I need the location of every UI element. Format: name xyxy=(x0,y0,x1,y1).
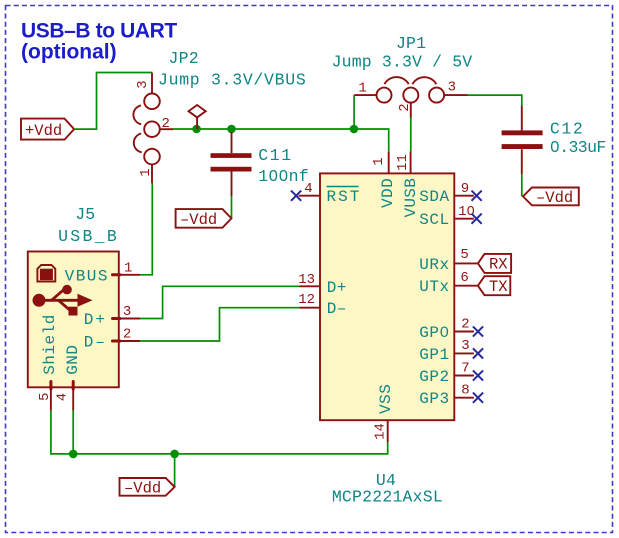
svg-text:J5: J5 xyxy=(75,205,95,224)
wire JP2 pin1 to VBUS xyxy=(140,183,152,274)
svg-text:SCL: SCL xyxy=(419,211,449,229)
svg-text:MCP2221AxSL: MCP2221AxSL xyxy=(332,488,443,507)
power flag +Vdd xyxy=(21,119,74,140)
svg-text:8: 8 xyxy=(461,383,469,399)
svg-text:GND: GND xyxy=(64,344,82,374)
connector J5 USB_B xyxy=(28,252,119,388)
pin UTx (U4.6) xyxy=(454,285,478,287)
svg-text:14: 14 xyxy=(373,423,389,440)
global label RX xyxy=(478,254,511,274)
pin SDA (U4.9) xyxy=(454,195,474,197)
svg-text:VUSB: VUSB xyxy=(402,178,420,218)
svg-text:GP2: GP2 xyxy=(419,368,449,386)
svg-text:2: 2 xyxy=(397,103,413,111)
wire C12 to -Vdd xyxy=(521,174,523,196)
svg-text:–Vdd: –Vdd xyxy=(180,211,217,229)
svg-text:2: 2 xyxy=(461,316,469,332)
wire C11 to -Vdd xyxy=(231,196,233,218)
no-connect X (GP1) xyxy=(473,348,483,358)
svg-text:VSS: VSS xyxy=(377,384,395,414)
power label -Vdd (under C11) xyxy=(176,209,232,229)
svg-text:11: 11 xyxy=(395,154,411,171)
wire JP1 pin2 to VUSB xyxy=(410,118,412,152)
capacitor C11 xyxy=(211,132,252,196)
svg-text:C11: C11 xyxy=(258,146,293,165)
svg-text:10: 10 xyxy=(458,204,475,220)
svg-text:GP3: GP3 xyxy=(419,390,449,408)
svg-text:0.33uF: 0.33uF xyxy=(550,138,606,157)
svg-text:TX: TX xyxy=(489,278,508,296)
pin Shield (J5.5) xyxy=(50,387,52,410)
wire JP1 pin1 down to vdd net xyxy=(353,95,355,129)
wire Shield to gnd net xyxy=(51,411,73,454)
svg-text:4: 4 xyxy=(55,393,71,401)
pin GP3 (U4.8) xyxy=(454,397,474,399)
capacitor C12 xyxy=(502,105,543,174)
no-connect X (RST) xyxy=(291,191,301,201)
global label TX xyxy=(478,276,510,296)
connector JP1 xyxy=(354,77,467,117)
svg-text:13: 13 xyxy=(298,272,315,288)
pin GP2 (U4.7) xyxy=(454,375,474,377)
no-connect X (GP3) xyxy=(473,393,483,403)
pin VBUS (J5.1) xyxy=(119,274,140,276)
svg-text:D+: D+ xyxy=(84,311,107,329)
svg-text:USB–B to UART: USB–B to UART xyxy=(21,20,177,43)
svg-text:3: 3 xyxy=(135,80,151,88)
pin D- (U4.12) xyxy=(300,307,321,309)
svg-text:3: 3 xyxy=(448,80,456,96)
power label -Vdd (under C12) xyxy=(523,188,579,207)
svg-text:–Vdd: –Vdd xyxy=(124,479,161,497)
svg-text:Shield: Shield xyxy=(41,314,59,375)
pin URx (U4.5) xyxy=(454,262,478,264)
svg-text:Jump 3.3V/VBUS: Jump 3.3V/VBUS xyxy=(158,70,306,89)
pin GP0 (U4.2) xyxy=(454,331,474,333)
pin D- (J5.2) xyxy=(119,340,140,342)
svg-text:–Vdd: –Vdd xyxy=(536,189,573,207)
svg-text:GP1: GP1 xyxy=(419,346,449,364)
usb trident icon xyxy=(33,294,46,307)
svg-text:3: 3 xyxy=(123,304,131,320)
pin GP1 (U4.3) xyxy=(454,352,474,354)
pin VUSB (U4.11) xyxy=(410,151,412,173)
svg-text:1: 1 xyxy=(358,81,366,97)
pin RST (U4.4) xyxy=(299,195,320,197)
svg-text:URx: URx xyxy=(419,256,449,274)
svg-text:C12: C12 xyxy=(550,120,585,139)
junction xyxy=(170,450,179,459)
junction xyxy=(69,450,78,459)
svg-text:D+: D+ xyxy=(327,279,347,297)
no-connect X (SDA) xyxy=(472,191,482,201)
wire junction to -Vdd label xyxy=(174,454,176,487)
svg-text:6: 6 xyxy=(460,270,468,286)
pin D+ (U4.13) xyxy=(300,285,321,287)
svg-text:+Vdd: +Vdd xyxy=(25,122,62,140)
svg-text:D–: D– xyxy=(84,334,107,352)
svg-text:VDD: VDD xyxy=(379,178,397,208)
svg-text:UTx: UTx xyxy=(419,278,449,296)
junction xyxy=(192,125,201,134)
IC U4 MCP2221AxSL xyxy=(320,173,454,420)
wire +Vdd to JP2 pin3 xyxy=(74,73,152,130)
wire JP2 pin2 to VDD pin xyxy=(173,129,389,151)
svg-text:3: 3 xyxy=(461,338,469,354)
pin D+ (J5.3) xyxy=(119,318,140,320)
svg-text:4: 4 xyxy=(304,181,312,197)
pin VDD (U4.1) xyxy=(388,151,390,173)
usb-b plug icon xyxy=(37,265,55,282)
junction xyxy=(227,125,236,134)
wire gnd bus to VSS xyxy=(73,442,388,454)
power flag PWR_FLAG xyxy=(189,105,206,129)
svg-text:Jump 3.3V / 5V: Jump 3.3V / 5V xyxy=(332,53,473,72)
no-connect X (GP0) xyxy=(473,326,483,336)
svg-text:RST: RST xyxy=(327,188,362,206)
pin GND (J5.4) xyxy=(72,387,74,410)
svg-text:5: 5 xyxy=(460,247,468,263)
svg-text:7: 7 xyxy=(461,360,469,376)
wire GND pin down xyxy=(72,411,74,454)
svg-text:1: 1 xyxy=(138,168,154,176)
wire JP1 pin3 to C12 xyxy=(468,95,522,105)
connector JP2 xyxy=(133,73,173,184)
svg-text:1: 1 xyxy=(124,261,132,277)
junction xyxy=(350,125,359,134)
svg-text:(optional): (optional) xyxy=(21,41,117,64)
svg-text:JP1: JP1 xyxy=(396,34,426,53)
svg-text:D–: D– xyxy=(327,300,347,318)
wire J5 D- to U4 pin12 xyxy=(140,308,300,341)
no-connect X (GP2) xyxy=(473,370,483,380)
title text xyxy=(21,20,177,64)
pin SCL (U4.10) xyxy=(454,218,474,220)
svg-text:JP2: JP2 xyxy=(169,49,199,68)
wire J5 D+ to U4 pin13 xyxy=(140,286,300,318)
svg-text:VBUS: VBUS xyxy=(65,267,109,285)
no-connect X (SCL) xyxy=(472,214,482,224)
svg-text:RX: RX xyxy=(489,256,508,274)
svg-text:2: 2 xyxy=(161,116,169,132)
svg-text:9: 9 xyxy=(461,181,469,197)
svg-text:SDA: SDA xyxy=(419,188,449,206)
svg-text:5: 5 xyxy=(37,392,53,400)
svg-text:2: 2 xyxy=(123,326,131,342)
svg-text:1: 1 xyxy=(371,157,387,165)
svg-text:12: 12 xyxy=(298,292,315,308)
pin VSS (U4.14) xyxy=(387,420,389,442)
svg-text:USB_B: USB_B xyxy=(58,227,119,246)
power label -Vdd (bottom) xyxy=(120,478,175,497)
